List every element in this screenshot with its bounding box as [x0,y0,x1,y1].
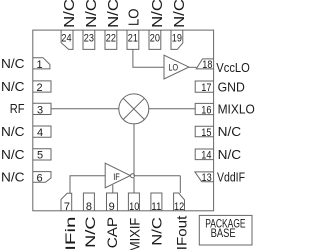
svg-text:23: 23 [84,32,94,44]
svg-text:1: 1 [36,59,42,71]
pin 7 [61,193,72,211]
svg-text:21: 21 [128,32,138,44]
wire IFout riser to pin12 [179,176,181,193]
labels right [216,60,255,185]
svg-text:19: 19 [172,32,182,44]
pin 9 [107,193,118,211]
svg-text:16: 16 [201,104,211,116]
svg-text:LO: LO [169,62,179,73]
pin 11 [151,193,162,211]
pin 24 [61,30,73,49]
package frame [33,30,214,211]
svg-text:N/C: N/C [218,147,242,162]
svg-text:N/C: N/C [1,56,25,71]
svg-text:MIXLO: MIXLO [218,102,255,117]
svg-text:CAP: CAP [104,217,120,248]
pin 15 [195,126,213,136]
svg-text:MIXIF: MIXIF [127,218,143,250]
svg-text:N/C: N/C [1,169,25,184]
svg-text:17: 17 [201,82,211,94]
pin 8 [83,193,94,211]
svg-text:IFout: IFout [174,216,190,250]
pin 14 [195,149,213,160]
wire LO amp tip to pin18 [189,66,197,68]
svg-text:N/C: N/C [149,217,165,246]
svg-text:14: 14 [201,150,211,162]
junction node circle [131,174,135,178]
svg-text:6: 6 [37,172,43,184]
pin 19 [171,30,183,49]
pin 5 [33,149,51,160]
labels bottom (rotated) [62,216,190,250]
svg-text:N/C: N/C [218,124,242,139]
svg-text:IF: IF [113,172,120,183]
svg-text:N/C: N/C [84,0,100,28]
pin 20 [149,30,161,49]
pin 22 [105,30,117,49]
PACKAGE BASE box [199,215,252,245]
wire CAP pin9 to IF amp [112,185,114,193]
svg-text:N/C: N/C [150,0,166,28]
pin 17 [195,81,213,92]
svg-text:18: 18 [202,59,212,71]
svg-text:VccLO: VccLO [216,60,250,75]
svg-text:3: 3 [37,104,43,116]
pin numbers top [61,32,182,44]
svg-text:N/C: N/C [1,124,25,139]
wire IFin pin7 up [70,176,105,194]
pin 3 [33,103,51,114]
svg-text:N/C: N/C [172,0,188,28]
wire RF pin3 to mixer [51,108,119,110]
svg-text:13: 13 [202,172,212,184]
op-amp LO U1 [164,55,189,79]
labels left [1,56,25,185]
svg-text:22: 22 [106,32,116,44]
pin 10 [128,193,139,211]
pin 18 [196,59,213,69]
wire mixer to pin16 MIXLO [149,108,195,110]
pin numbers bottom [64,201,184,213]
svg-text:15: 15 [201,127,211,139]
mixer circle [119,94,149,124]
pin 6 [33,172,51,183]
pin 13 [195,172,214,182]
svg-text:7: 7 [64,201,70,213]
svg-text:20: 20 [150,32,160,44]
svg-text:4: 4 [37,127,43,139]
svg-text:GND: GND [218,79,245,94]
pin 23 [83,30,95,49]
pin 4 [33,126,51,137]
svg-text:VddIF: VddIF [217,170,245,185]
svg-text:N/C: N/C [82,217,98,248]
mixer X [123,98,144,119]
pin numbers right [201,59,212,184]
svg-text:24: 24 [61,32,71,44]
wire junction down to pin10 MIXIF [133,178,135,193]
svg-text:11: 11 [151,201,161,213]
svg-text:RF: RF [10,101,25,116]
svg-text:8: 8 [86,201,92,213]
pin 1 [33,58,50,69]
svg-text:2: 2 [37,82,43,94]
svg-text:BASE: BASE [211,227,236,240]
svg-text:12: 12 [174,201,184,213]
svg-text:IFin: IFin [62,217,78,250]
pin 21 [127,30,139,49]
pin 2 [33,81,51,92]
svg-text:N/C: N/C [1,147,25,162]
svg-text:N/C: N/C [62,0,78,28]
wire LO pin21 down [133,49,164,67]
svg-text:10: 10 [129,201,139,213]
pin 16 [195,103,213,114]
wire junction right [135,175,181,177]
wire mixer bottom to junction [133,124,135,176]
svg-text:N/C: N/C [1,79,25,94]
op-amp IF U2 [105,163,130,188]
svg-text:5: 5 [37,150,43,162]
svg-text:N/C: N/C [106,0,122,28]
pin numbers left [36,59,43,185]
pin 12 [174,193,185,211]
svg-text:LO: LO [126,9,142,27]
labels top (rotated) [62,0,188,28]
svg-text:9: 9 [109,201,115,213]
